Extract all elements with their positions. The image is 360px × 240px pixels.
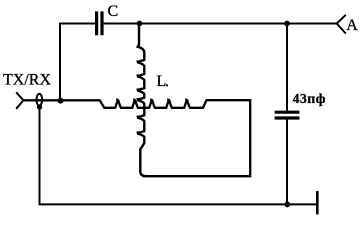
svg-text:TX/RX: TX/RX bbox=[3, 72, 51, 89]
node TX/RX feed junction on left vertical bbox=[58, 98, 64, 104]
svg-text:43пф: 43пф bbox=[293, 92, 326, 107]
ground terminal bar bbox=[316, 191, 319, 214]
node junction top of inductor L bbox=[137, 21, 143, 27]
inductor winding horizontal (coupled section) with link to tank bbox=[23, 100, 250, 176]
wire left shield rail down and bottom rail bbox=[40, 107, 317, 204]
wire capacitor branch lower bbox=[286, 120, 288, 205]
antenna terminal A bbox=[337, 15, 359, 34]
capacitor C bbox=[97, 3, 119, 35]
svg-text:L: L bbox=[157, 73, 167, 90]
svg-text:A: A bbox=[346, 17, 358, 34]
wire capacitor branch upper bbox=[286, 24, 288, 111]
connector TX/RX (coax jack) bbox=[3, 72, 51, 109]
inductor L vertical winding with bottom return bbox=[138, 24, 168, 176]
capacitor 43pF bbox=[275, 92, 326, 118]
wire top rail left segment with left vertical drop bbox=[60, 24, 95, 101]
node connector shield junction bbox=[37, 104, 42, 109]
wire top rail right segment to antenna bbox=[104, 23, 337, 25]
node junction bottom of capacitor branch bbox=[284, 202, 290, 208]
svg-text:C: C bbox=[108, 3, 119, 20]
node junction top of antenna capacitor branch bbox=[284, 21, 290, 27]
